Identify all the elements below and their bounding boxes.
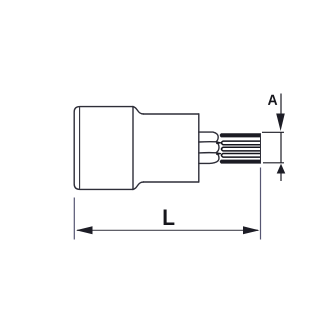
dim A arrow tail bottom bbox=[280, 173, 282, 181]
label L (Liberation Sans Bold glyph outline) bbox=[164, 210, 175, 225]
spline right end edge bbox=[260, 133, 262, 163]
dim A extension line bottom bbox=[263, 162, 284, 164]
transition curve top bbox=[132, 107, 143, 114]
hex shank divider 1 bbox=[199, 141, 216, 143]
spline flute loop 2 bbox=[221, 147, 260, 151]
dim A connector line bbox=[280, 132, 282, 163]
spline top band bbox=[220, 133, 261, 137]
transition curve bottom bbox=[132, 182, 143, 189]
dim A extension line top bbox=[262, 131, 284, 133]
dim A arrow down bbox=[276, 114, 285, 132]
dim L line bbox=[77, 229, 258, 231]
hex shank divider 2 bbox=[199, 152, 216, 154]
neck bottom line bbox=[144, 181, 199, 183]
spline flute loop 1 bbox=[221, 141, 260, 145]
dim L extension line left bbox=[73, 198, 75, 240]
spline chamfer cusp mid2 bbox=[216, 153, 221, 155]
dim L arrow left bbox=[76, 226, 93, 234]
dim A arrow up bbox=[277, 164, 286, 174]
socket chamfer line bbox=[79, 108, 81, 189]
neck right edge bbox=[198, 114, 200, 182]
label A (Liberation Sans Bold glyph outline) bbox=[268, 95, 277, 105]
spline bottom band bbox=[220, 160, 261, 164]
neck top line bbox=[144, 113, 199, 115]
socket body outline bbox=[74, 107, 133, 190]
dim A leader line top bbox=[280, 94, 282, 117]
hex shank outline with lobed right end bbox=[199, 132, 219, 163]
spline flute loop 3 bbox=[221, 154, 260, 158]
dim L arrow right bbox=[243, 226, 260, 234]
dim L extension line right bbox=[260, 168, 262, 240]
spline chamfer cusp mid1 bbox=[216, 142, 221, 144]
